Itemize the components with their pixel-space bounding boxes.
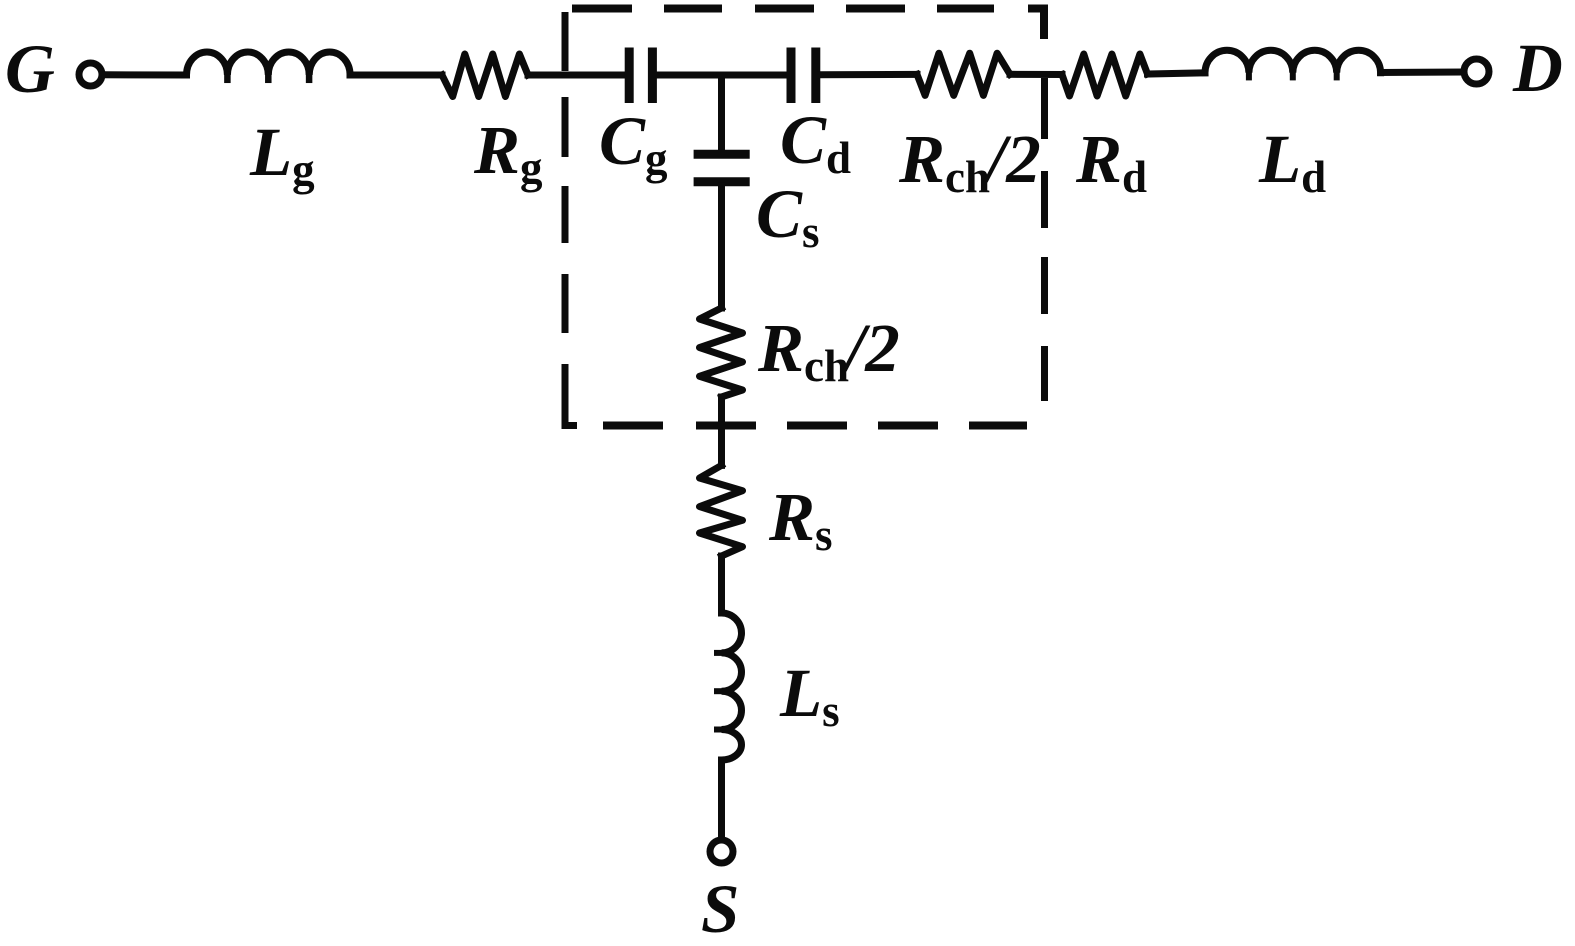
svg-text:G: G xyxy=(5,31,55,107)
svg-text:S: S xyxy=(701,871,739,946)
svg-text:D: D xyxy=(1512,30,1563,106)
